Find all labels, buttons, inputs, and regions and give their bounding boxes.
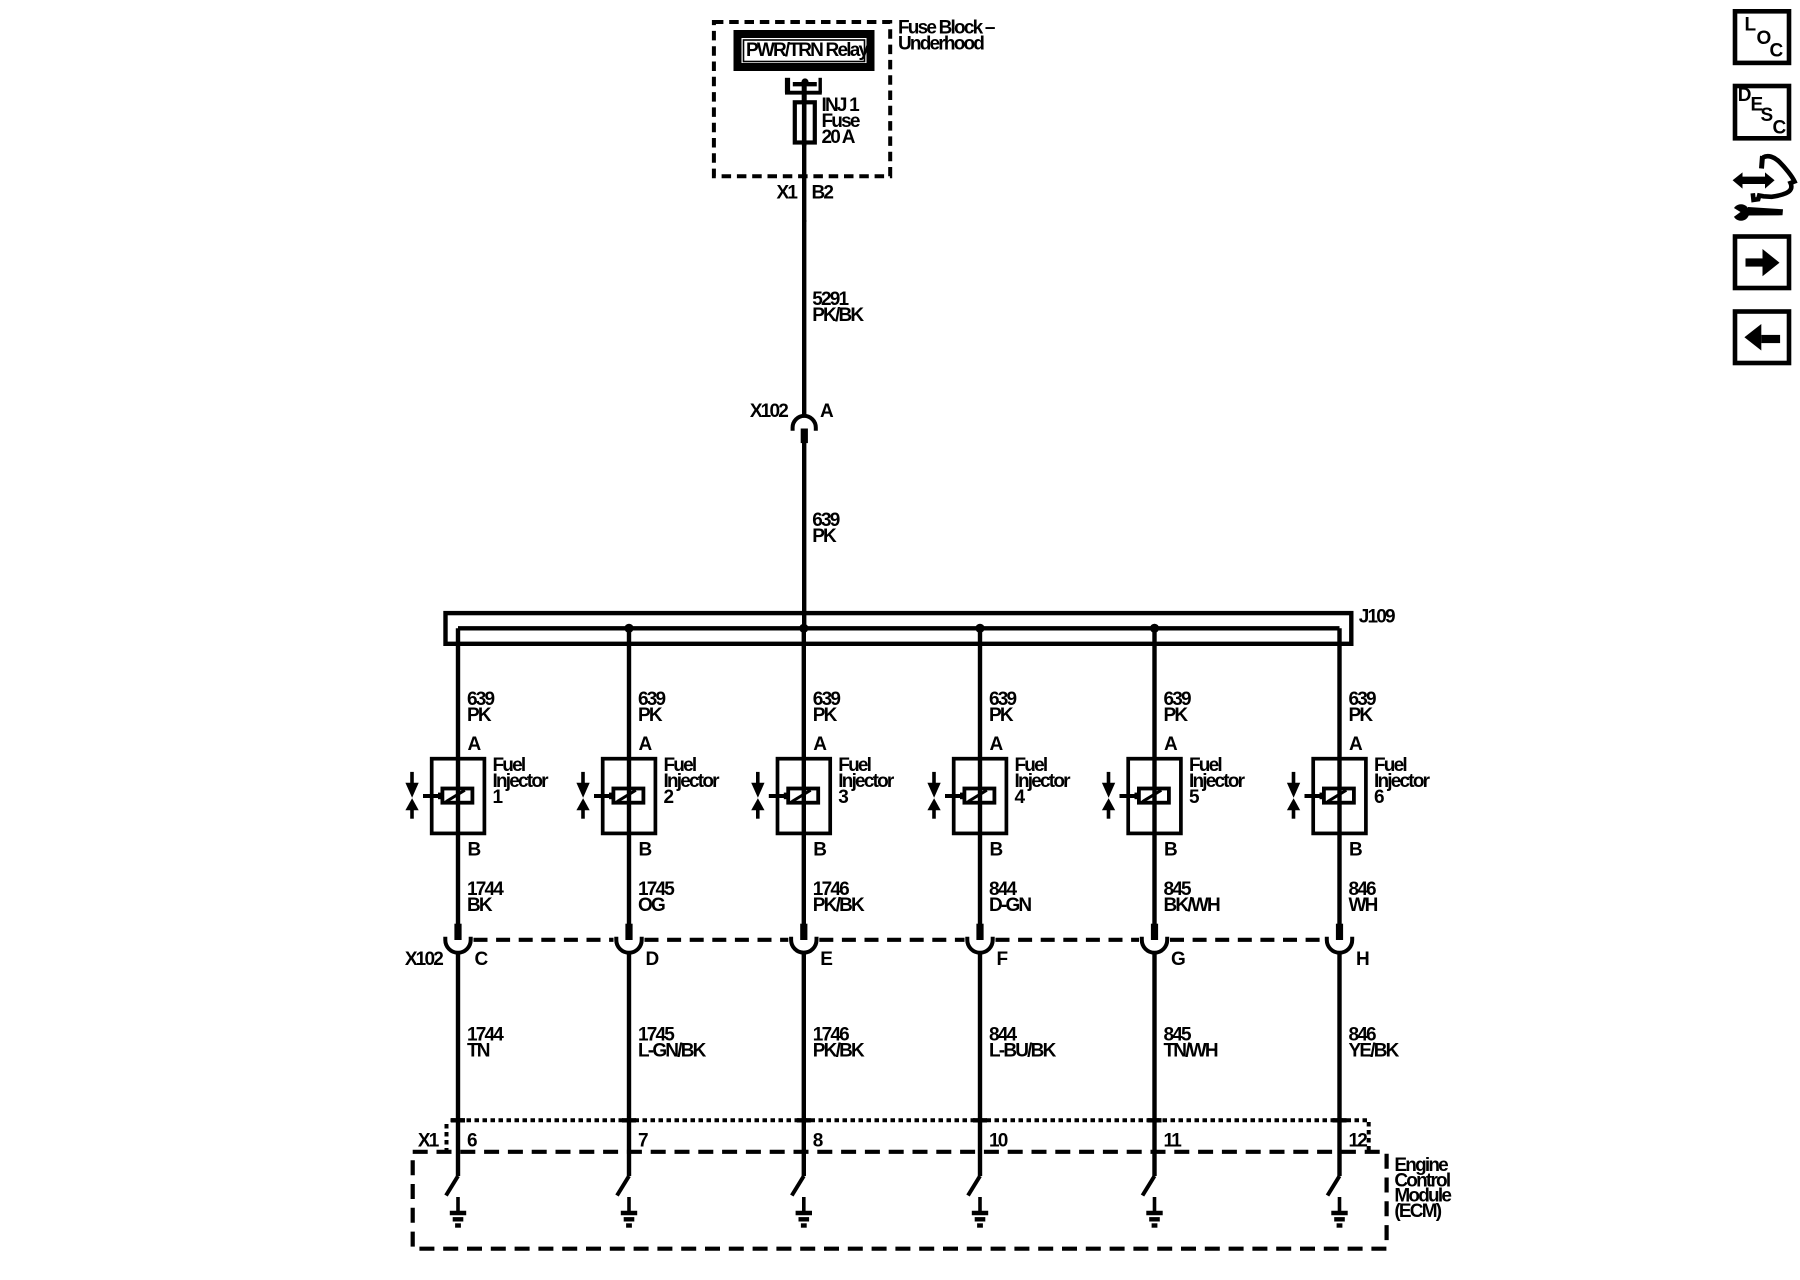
svg-text:PK: PK (1164, 705, 1189, 726)
label 1746 PK/BK (813, 1025, 865, 1062)
ECM low-side driver switch for injector 5 (1143, 1176, 1155, 1196)
ground (ECM internal, injector 4 driver) (972, 1197, 988, 1226)
svg-text:Underhood: Underhood (898, 34, 984, 55)
pin B label (injector 2) (639, 840, 652, 861)
label Fuel Injector 2 (664, 755, 721, 808)
label Fuse Block - Underhood (898, 18, 995, 55)
wire 845 TN/WH to ECM (1152, 953, 1156, 1177)
svg-text:J109: J109 (1359, 607, 1395, 628)
svg-text:2: 2 (664, 787, 674, 808)
label Fuel Injector 3 (838, 755, 895, 808)
label 846 YE/BK (1349, 1025, 1400, 1062)
svg-text:X1: X1 (777, 183, 799, 204)
icon LOC box (1735, 11, 1789, 63)
fuel injector 5 (1102, 759, 1181, 834)
wire 639 PK from J109 to fuel injector 2 pin A (627, 628, 631, 925)
svg-text:B: B (639, 840, 652, 861)
label 639 PK (812, 510, 840, 547)
wire fuse to connector X1-B2 (802, 144, 806, 222)
label Fuel Injector 6 (1374, 755, 1431, 808)
connector X102 pin E (791, 924, 816, 953)
svg-text:G: G (1171, 949, 1185, 970)
junction dot on J109 at injector 3 drop (799, 624, 808, 633)
ECM dashed box (413, 1152, 1387, 1249)
junction dot on J109 at injector 5 drop (1150, 624, 1159, 633)
label 1745 OG (638, 879, 675, 916)
fuel injector 4 (927, 759, 1006, 834)
svg-text:C: C (1773, 118, 1787, 139)
svg-text:A: A (813, 734, 827, 755)
pin B label (injector 1) (468, 840, 481, 861)
svg-text:X102: X102 (405, 949, 443, 970)
ECM pin 11 label (1164, 1131, 1183, 1152)
svg-text:PK: PK (467, 705, 492, 726)
label pin letter G (1171, 949, 1185, 970)
label 639 PK (injector 5 feed) (1164, 689, 1192, 726)
svg-text:6: 6 (1374, 787, 1384, 808)
svg-text:PK/BK: PK/BK (813, 1040, 865, 1061)
svg-text:11: 11 (1164, 1131, 1183, 1152)
connector X102 dashed line segment 1 (474, 938, 614, 942)
connector X102 pin A (inline) (793, 416, 816, 443)
pin B label (injector 3) (813, 840, 826, 861)
pin A label (injector 4) (990, 734, 1004, 755)
ground (ECM internal, injector 5 driver) (1146, 1197, 1162, 1226)
ground (ECM internal, injector 3 driver) (796, 1197, 812, 1226)
svg-text:20 A: 20 A (822, 127, 856, 148)
wire 639 PK from J109 to fuel injector 1 pin A (456, 628, 460, 925)
label 639 PK (injector 2 feed) (638, 689, 666, 726)
svg-text:X102: X102 (750, 401, 788, 422)
connector X1 dotted row (447, 1120, 1369, 1150)
ECM pin 8 label (813, 1131, 823, 1152)
svg-text:D-GN: D-GN (989, 895, 1031, 916)
svg-text:WH: WH (1349, 895, 1378, 916)
svg-text:L-GN/BK: L-GN/BK (638, 1040, 707, 1061)
svg-text:A: A (820, 401, 834, 422)
svg-text:PWR/TRN Relay: PWR/TRN Relay (746, 40, 869, 61)
svg-text:S: S (1761, 105, 1773, 126)
ECM pin 12 label (1349, 1131, 1368, 1152)
ECM low-side driver switch for injector 6 (1328, 1176, 1340, 1196)
ECM low-side driver switch for injector 4 (968, 1176, 980, 1196)
label X102 (row) (405, 949, 443, 970)
svg-text:H: H (1356, 949, 1369, 970)
label X1 (ECM connector) (418, 1131, 440, 1152)
icon next (right arrow) box (1735, 237, 1789, 289)
ECM pin 6 label (467, 1131, 477, 1152)
svg-text:PK: PK (813, 705, 838, 726)
svg-text:PK: PK (989, 705, 1014, 726)
label 1745 L-GN/BK (638, 1025, 707, 1062)
svg-text:A: A (468, 734, 482, 755)
fuel injector 3 (751, 759, 830, 834)
connector X102 dashed line segment 2 (645, 938, 789, 942)
fuse block underhood dashed box (714, 22, 890, 176)
svg-text:PK: PK (812, 526, 837, 547)
ECM low-side driver switch for injector 3 (792, 1176, 804, 1196)
fuel injector 2 (576, 759, 655, 834)
label 846 WH (1349, 879, 1378, 916)
ground (ECM internal, injector 2 driver) (621, 1197, 637, 1226)
connector X102 pin C (445, 924, 470, 953)
svg-text:3: 3 (838, 787, 848, 808)
label 844 D-GN (989, 879, 1031, 916)
label pin letter F (997, 949, 1008, 970)
connector X102 pin D (616, 924, 641, 953)
svg-text:B: B (813, 840, 826, 861)
icon DESC box (1735, 85, 1789, 139)
svg-text:BK: BK (467, 895, 493, 916)
svg-text:O: O (1757, 28, 1771, 49)
svg-text:PK/BK: PK/BK (813, 895, 865, 916)
svg-text:7: 7 (638, 1131, 648, 1152)
svg-text:8: 8 (813, 1131, 823, 1152)
svg-text:B2: B2 (812, 183, 834, 204)
wire 639 PK from J109 to fuel injector 3 pin A (802, 628, 806, 925)
label Engine Control Module (ECM) (1394, 1155, 1451, 1222)
tick at X1 row for pin 8 (797, 1118, 811, 1122)
fuel injector 6 (1287, 759, 1366, 834)
connector X102 dashed line segment 5 (1170, 938, 1324, 942)
svg-text:B: B (468, 840, 481, 861)
svg-text:YE/BK: YE/BK (1349, 1040, 1400, 1061)
svg-text:B: B (1164, 840, 1177, 861)
connector X102 pin H (1327, 924, 1352, 953)
svg-text:A: A (1164, 734, 1178, 755)
tick at X1 row for pin 12 (1333, 1118, 1347, 1122)
svg-text:PK/BK: PK/BK (812, 305, 864, 326)
wire 639 PK (feed to splice pack) (802, 443, 806, 628)
ground (ECM internal, injector 1 driver) (450, 1197, 466, 1226)
ground (ECM internal, injector 6 driver) (1331, 1197, 1347, 1226)
label X102 A (750, 401, 834, 422)
label 639 PK (injector 3 feed) (813, 689, 841, 726)
wire 639 PK from J109 to fuel injector 6 pin A (1337, 628, 1341, 925)
label 639 PK (injector 6 feed) (1349, 689, 1377, 726)
icon connector view (double arrow and wrench) (1727, 156, 1795, 222)
connector X102 dashed line segment 4 (996, 938, 1140, 942)
fuel injector 1 (405, 759, 484, 834)
svg-text:TN: TN (467, 1040, 490, 1061)
connector X102 pin G (1142, 924, 1167, 953)
pin B label (injector 6) (1349, 840, 1362, 861)
pin A label (injector 6) (1349, 734, 1363, 755)
label pin letter C (475, 949, 489, 970)
pin B label (injector 5) (1164, 840, 1177, 861)
tick at X1 row for pin 11 (1148, 1118, 1162, 1122)
tick at X1 row for pin 6 (451, 1118, 465, 1122)
label 639 PK (injector 1 feed) (467, 689, 495, 726)
ECM pin 10 label (989, 1131, 1008, 1152)
label 845 TN/WH (1164, 1025, 1218, 1062)
svg-text:12: 12 (1349, 1131, 1368, 1152)
tick at X1 row for pin 7 (622, 1118, 636, 1122)
label Fuel Injector 1 (493, 755, 550, 808)
label Fuel Injector 4 (1015, 755, 1072, 808)
label 1744 BK (467, 879, 504, 916)
svg-text:OG: OG (638, 895, 665, 916)
pin A label (injector 2) (639, 734, 653, 755)
wire relay to fuse (802, 84, 807, 102)
svg-text:E: E (820, 949, 832, 970)
svg-text:C: C (475, 949, 489, 970)
connector X102 pin F (967, 924, 992, 953)
pin A label (injector 5) (1164, 734, 1178, 755)
svg-text:X1: X1 (418, 1131, 440, 1152)
label Fuel Injector 5 (1189, 755, 1246, 808)
svg-text:PK: PK (638, 705, 663, 726)
label 1744 TN (467, 1025, 504, 1062)
svg-text:10: 10 (989, 1131, 1008, 1152)
svg-text:F: F (997, 949, 1008, 970)
ECM low-side driver switch for injector 2 (617, 1176, 629, 1196)
ECM pin 7 label (638, 1131, 648, 1152)
relay K1 PWR/TRN Relay box (738, 34, 871, 67)
wire 5291 PK/BK (802, 220, 806, 417)
svg-text:PK: PK (1349, 705, 1374, 726)
svg-text:D: D (646, 949, 659, 970)
wire 846 YE/BK to ECM (1337, 953, 1341, 1177)
svg-text:(ECM): (ECM) (1394, 1201, 1441, 1222)
pin A label (injector 3) (813, 734, 827, 755)
ECM low-side driver switch for injector 1 (446, 1176, 458, 1196)
wire 639 PK from J109 to fuel injector 4 pin A (978, 628, 982, 925)
svg-text:6: 6 (467, 1131, 477, 1152)
label 844 L-BU/BK (989, 1025, 1057, 1062)
label pin letter E (820, 949, 832, 970)
wire 844 L-BU/BK to ECM (978, 953, 982, 1177)
icon back (left arrow) box (1735, 312, 1789, 364)
pin A label (injector 1) (468, 734, 482, 755)
splice pack J109 bus (446, 613, 1352, 644)
svg-text:C: C (1770, 41, 1784, 62)
label pin letter H (1356, 949, 1369, 970)
svg-text:L-BU/BK: L-BU/BK (989, 1040, 1057, 1061)
svg-text:B: B (1349, 840, 1362, 861)
connector X102 dashed line segment 3 (819, 938, 964, 942)
svg-text:A: A (1349, 734, 1363, 755)
svg-text:BK/WH: BK/WH (1164, 895, 1220, 916)
wire 1744 TN to ECM (456, 953, 460, 1177)
junction dot on J109 at injector 2 drop (624, 624, 633, 633)
label 845 BK/WH (1164, 879, 1220, 916)
junction dot on J109 at injector 4 drop (975, 624, 984, 633)
svg-text:TN/WH: TN/WH (1164, 1040, 1218, 1061)
label 5291 PK/BK (812, 289, 864, 326)
pin B label (injector 4) (990, 840, 1003, 861)
wire 1746 PK/BK to ECM (802, 953, 806, 1177)
relay contact (PWR/TRN relay output) (785, 78, 822, 93)
svg-text:A: A (990, 734, 1004, 755)
svg-text:A: A (639, 734, 653, 755)
wire 1745 L-GN/BK to ECM (627, 953, 631, 1177)
label INJ 1 Fuse 20 A (822, 95, 861, 148)
connector X1 pin B2 labels (777, 183, 834, 204)
wire 639 PK from J109 to fuel injector 5 pin A (1152, 628, 1156, 925)
label J109 (1359, 607, 1395, 628)
fuse INJ 1 20 A (795, 100, 815, 146)
tick at X1 row for pin 10 (973, 1118, 987, 1122)
label 639 PK (injector 4 feed) (989, 689, 1017, 726)
svg-text:B: B (990, 840, 1003, 861)
svg-text:D: D (1738, 85, 1751, 106)
label pin letter D (646, 949, 659, 970)
label 1746 PK/BK (813, 879, 865, 916)
